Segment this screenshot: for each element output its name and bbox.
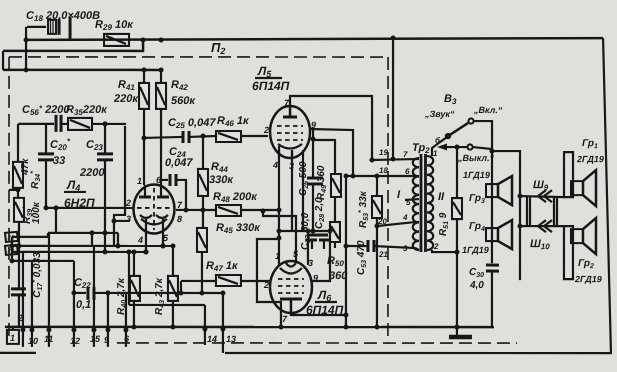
wire Gr1 loop	[564, 152, 573, 197]
wire terminal6 riser	[125, 293, 127, 327]
resistor R41	[139, 70, 149, 185]
node bus x377	[374, 325, 379, 330]
node Sh10	[517, 224, 522, 229]
node bus y261 left	[9, 258, 14, 263]
svg-text:560к: 560к	[171, 95, 196, 107]
node B+ top	[391, 36, 396, 41]
node R41 top	[142, 67, 147, 72]
wire bus y246	[12, 245, 173, 247]
wire Vykl arrow line	[444, 146, 467, 148]
node x56	[53, 205, 58, 210]
terminal ticks	[23, 327, 223, 347]
resistor R35	[68, 118, 126, 130]
svg-text:C25 0,047: C25 0,047	[168, 117, 216, 130]
node C26 bus	[310, 229, 315, 234]
capacitor C53	[346, 240, 415, 252]
resistor R50	[330, 222, 340, 248]
node C20 bottom	[43, 205, 48, 210]
svg-text:„Звук“: „Звук“	[424, 109, 455, 119]
capacitor C18	[27, 17, 70, 41]
wire aux column	[302, 150, 304, 231]
capacitor C17	[11, 289, 26, 327]
node R35 out	[103, 121, 108, 126]
wire L6 pin9	[312, 231, 330, 281]
svg-text:R53* 33к: R53* 33к	[358, 190, 370, 228]
node pin4 R48	[276, 207, 281, 212]
svg-text:R49 360: R49 360	[316, 165, 328, 200]
wire B+ feed to transformer	[392, 38, 394, 159]
resistor R49	[331, 174, 341, 222]
capacitor C56	[56, 115, 68, 132]
wire ground drop	[456, 252, 458, 327]
svg-text:8: 8	[177, 214, 182, 224]
resistor R43	[168, 246, 178, 327]
svg-text:2: 2	[433, 242, 439, 251]
capacitor C23	[97, 124, 113, 252]
resistor R47	[181, 275, 270, 286]
wire L5 pin3 drop	[291, 150, 293, 231]
node x129	[126, 249, 131, 254]
node x118	[115, 243, 120, 248]
svg-text:15: 15	[90, 334, 101, 344]
wire heater bus y305	[129, 304, 205, 306]
connector rails left	[527, 197, 530, 226]
resistor R53	[372, 176, 382, 327]
wire ground bus	[5, 326, 494, 329]
node C25 out	[201, 133, 206, 138]
svg-text:13: 13	[226, 334, 236, 344]
wire left edge link	[2, 51, 4, 70]
wire tab22 line	[12, 233, 48, 237]
winding II	[427, 156, 433, 250]
terminal dots	[20, 326, 225, 332]
wire supply feed D	[3, 69, 161, 72]
svg-text:1: 1	[275, 251, 280, 261]
wire bus y261	[12, 260, 74, 262]
svg-text:18: 18	[379, 166, 388, 175]
wire grid row y124	[18, 123, 54, 125]
svg-text:2200: 2200	[79, 167, 105, 179]
svg-text:R46 1к: R46 1к	[217, 115, 250, 128]
wire terminal15 riser	[93, 246, 95, 327]
svg-text:33: 33	[53, 155, 65, 167]
svg-text:R35220к: R35220к	[66, 104, 108, 117]
resistor R34	[13, 162, 23, 188]
wire terminal2 riser	[22, 252, 24, 327]
wire Vykl to rail	[473, 147, 492, 149]
svg-text:220к: 220к	[113, 93, 139, 105]
wire x118 drop	[117, 233, 119, 246]
resistor R40	[130, 253, 140, 327]
wire R34-R39 link	[17, 188, 19, 198]
node R44 mid	[200, 207, 205, 212]
wire L5 anode top	[290, 96, 372, 160]
resistor R46	[216, 131, 268, 142]
wire R49 feed	[313, 140, 335, 174]
svg-text:6П14П: 6П14П	[252, 79, 290, 93]
node R45 bottom	[199, 290, 204, 295]
node x457 y252	[454, 250, 459, 255]
wire Vkl feed	[474, 121, 492, 151]
node Sh9	[517, 194, 522, 199]
node bus y246 left	[9, 243, 14, 248]
wire L6 pin7	[291, 313, 346, 315]
svg-text:3: 3	[126, 214, 131, 224]
resistor R29	[104, 34, 129, 46]
wire bottom stub	[222, 345, 224, 353]
svg-text:4: 4	[272, 160, 278, 170]
svg-text:11: 11	[44, 334, 53, 344]
wire left border stubs	[11, 237, 13, 261]
terminal number labels	[28, 334, 236, 346]
capacitor C28	[319, 240, 329, 249]
svg-text:1: 1	[137, 176, 142, 186]
connector Sh9 chevrons	[538, 190, 552, 202]
node pin5 bus	[160, 243, 165, 248]
svg-text:R40 2,7к: R40 2,7к	[116, 277, 128, 315]
dashed box P2 bottom	[117, 342, 517, 344]
svg-text:1ГД19: 1ГД19	[462, 245, 489, 255]
wire terminal10 riser	[31, 261, 33, 327]
wire stub left y190	[9, 189, 18, 191]
wire heater 14 riser	[204, 305, 206, 332]
node D-C18	[24, 67, 29, 72]
svg-text:1: 1	[433, 149, 438, 158]
svg-text:1: 1	[10, 333, 15, 343]
switch V3	[445, 118, 474, 149]
node R42 top	[159, 37, 164, 42]
svg-text:2: 2	[263, 280, 269, 290]
node y246 x19	[16, 243, 21, 248]
terminal tab 22	[5, 232, 18, 242]
svg-text:2: 2	[263, 125, 269, 135]
node R40 top	[131, 249, 136, 254]
svg-text:23: 23	[6, 248, 14, 254]
wire R39 drop	[18, 222, 20, 288]
node C24 out	[183, 207, 188, 212]
node x354 y176	[351, 174, 356, 179]
wire x56 drop	[55, 208, 57, 233]
node junction B-top	[141, 37, 146, 42]
svg-text:21: 21	[378, 250, 388, 259]
svg-text:22: 22	[6, 235, 14, 241]
transformer core	[421, 154, 426, 252]
svg-text:R47 1к: R47 1к	[206, 260, 239, 273]
svg-text:C27 50,0: C27 50,0	[300, 212, 312, 250]
resistor R48	[176, 205, 279, 216]
node anode x372	[370, 158, 375, 163]
svg-text:C17* 0,033: C17* 0,033	[32, 252, 44, 298]
wire L5 pin4 drop	[278, 150, 280, 266]
svg-text:„Выкл.“: „Выкл.“	[457, 153, 495, 163]
node pin1 y231	[276, 228, 281, 233]
wire R34 riser	[17, 124, 19, 162]
node x223	[220, 290, 225, 295]
wire bus y252	[12, 251, 146, 253]
svg-text:4: 4	[137, 235, 143, 245]
capacitor C24	[161, 174, 186, 210]
wire terminal11 riser	[48, 233, 50, 327]
svg-text:7: 7	[403, 150, 408, 159]
svg-text:2ГД19: 2ГД19	[574, 274, 602, 284]
resistor R42	[156, 70, 166, 185]
svg-text:R45 330к: R45 330к	[216, 222, 261, 235]
capacitor C27	[306, 235, 328, 249]
node y293 x108	[105, 290, 110, 295]
resistor R39	[14, 198, 24, 222]
svg-text:19: 19	[379, 148, 388, 157]
svg-text:2ГД19: 2ГД19	[576, 154, 604, 164]
wire heater bus y293	[74, 292, 86, 294]
terminal 1 box	[7, 327, 19, 344]
svg-text:R48 200к: R48 200к	[213, 191, 258, 204]
wire L6 pin3 stub	[307, 231, 309, 265]
wire screen riser x346	[345, 176, 347, 327]
wire bus y233	[48, 232, 118, 234]
capacitor C22	[88, 287, 223, 300]
node R53 top	[375, 174, 380, 179]
svg-text:330к: 330к	[209, 174, 234, 186]
node x346 y315	[343, 313, 348, 318]
svg-text:3: 3	[403, 244, 408, 253]
svg-text:100к: 100к	[31, 201, 42, 224]
wire bus y231	[279, 230, 330, 232]
node R41 out	[142, 135, 147, 140]
node R43 top	[170, 243, 175, 248]
tube L6	[270, 261, 312, 313]
svg-text:20: 20	[377, 217, 387, 226]
wire C18 left drop	[25, 27, 27, 70]
resistor R44	[198, 136, 208, 228]
resistor R45	[197, 228, 207, 293]
node x260 y281	[278, 324, 283, 329]
wire terminal12 riser	[73, 261, 75, 327]
svg-text:C28 2,0: C28 2,0	[314, 197, 326, 229]
svg-text:6: 6	[405, 167, 410, 176]
wire y305 riser	[128, 252, 130, 305]
node R43 bottom	[170, 324, 175, 329]
wire heater 13 riser	[222, 293, 224, 332]
wire outer bottom line	[225, 352, 612, 354]
wire top supply line	[26, 38, 603, 40]
svg-text:14: 14	[207, 334, 217, 344]
wire winding II top	[432, 137, 447, 156]
svg-text:5: 5	[406, 198, 411, 207]
wire C26 column	[312, 130, 314, 177]
wire L4 pin5 drop	[162, 224, 164, 246]
node B+ tap7	[391, 157, 396, 162]
svg-text:C56* 2200: C56* 2200	[22, 104, 70, 117]
node C18 on line A	[24, 37, 29, 42]
node bus x346	[343, 325, 348, 330]
svg-text:9: 9	[104, 335, 109, 345]
node x346 y246	[343, 244, 348, 249]
wire L4 pin3 stub	[114, 220, 130, 222]
svg-text:„Вкл.“: „Вкл.“	[473, 105, 503, 115]
speaker Gr1	[571, 170, 596, 206]
svg-text:12: 12	[70, 336, 80, 346]
wire line19	[372, 159, 415, 160]
wire bottom-left stub	[0, 352, 36, 354]
node R47 left	[178, 290, 183, 295]
node D-R42	[159, 67, 164, 72]
svg-text:1ГД19: 1ГД19	[463, 170, 490, 180]
capacitor C25	[144, 131, 216, 143]
wire winding II bottom	[432, 250, 457, 252]
node line20	[374, 224, 379, 229]
winding I taps	[405, 159, 419, 250]
node x279 y238	[276, 235, 281, 240]
svg-text:II: II	[438, 191, 445, 203]
svg-text:4,0: 4,0	[469, 280, 484, 291]
node y293 x74	[71, 290, 76, 295]
wire line18	[346, 175, 415, 177]
svg-text:R29 10к: R29 10к	[95, 19, 134, 32]
wire right border	[603, 38, 611, 352]
connector Sh10 chevrons	[538, 220, 552, 232]
svg-text:0,1: 0,1	[76, 299, 91, 311]
dashed box P2 right	[387, 57, 389, 343]
node R40 bottom	[131, 324, 136, 329]
wire L6 pin5 chain	[263, 211, 296, 262]
node pin9 y231	[327, 229, 332, 234]
node rail top	[490, 149, 495, 154]
wire L5 pin9	[310, 129, 353, 176]
speaker Gr3	[486, 176, 512, 205]
node pin3 y231	[305, 228, 310, 233]
wire R47 left drop	[180, 281, 182, 293]
svg-text:4: 4	[402, 213, 408, 222]
wire left rail	[491, 151, 493, 263]
wire Gr2 loop	[564, 226, 573, 279]
arrowhead Vykl	[437, 144, 447, 151]
wire Sh9 line	[520, 196, 564, 197]
tube L5	[270, 106, 310, 158]
node R48 line x263	[260, 208, 265, 213]
wire Sh10 line	[520, 225, 564, 227]
node pin5 y246	[160, 243, 165, 248]
terminal tab 23	[5, 245, 18, 255]
node C23 y233	[102, 230, 107, 235]
wire supply feed B	[3, 40, 143, 51]
winding I	[413, 158, 419, 250]
capacitor C20	[38, 124, 54, 208]
wire feed rail x520	[492, 151, 520, 280]
node R34R39	[15, 187, 20, 192]
node x346 y176	[344, 174, 349, 179]
speaker Gr4	[486, 220, 512, 249]
wire L4 pin3 chain	[114, 126, 125, 246]
resistor R51	[452, 147, 462, 252]
node pin4 y252	[143, 249, 148, 254]
capacitor C26	[307, 178, 323, 231]
svg-text:0,047: 0,047	[165, 157, 193, 169]
node C23 bottom	[102, 249, 107, 254]
node R51 top	[455, 145, 460, 150]
node pin3	[111, 218, 116, 223]
wire terminal9 riser	[107, 293, 109, 327]
node x313	[311, 137, 316, 142]
svg-text:10: 10	[28, 336, 38, 346]
node x92	[89, 230, 94, 235]
svg-text:2: 2	[17, 313, 23, 323]
wire line20	[377, 222, 415, 226]
wire L4 pin4 drop	[145, 224, 147, 252]
speaker Gr2	[571, 218, 596, 254]
svg-text:R43 2,7к: R43 2,7к	[154, 277, 166, 315]
dashed box P2 top	[9, 56, 388, 58]
node pin4 bus	[143, 249, 148, 254]
wire L4 grid row	[46, 207, 134, 209]
node bus x457	[454, 325, 459, 330]
ground symbol	[449, 327, 472, 337]
wire x92 drop	[91, 233, 93, 246]
tube L4	[133, 184, 174, 233]
wire heater branch	[257, 239, 281, 327]
capacitor C30	[486, 265, 499, 327]
connector rails right	[554, 197, 557, 226]
dashed box P2 left	[8, 57, 10, 340]
